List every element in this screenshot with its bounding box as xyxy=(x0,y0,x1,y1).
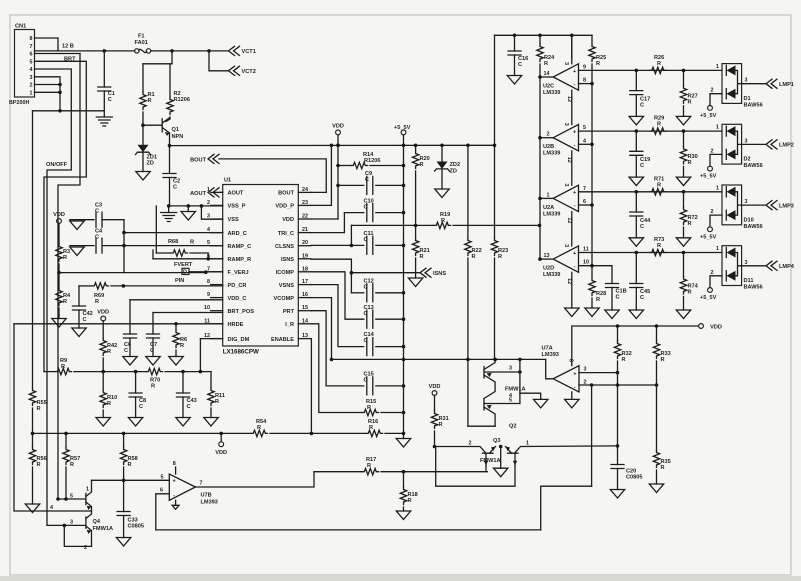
connector xyxy=(208,188,219,197)
svg-text:R: R xyxy=(37,406,41,412)
ground below R28 xyxy=(585,308,599,317)
capacitor C15 xyxy=(364,372,374,395)
svg-text:D2: D2 xyxy=(744,157,751,163)
svg-text:3: 3 xyxy=(509,366,512,372)
wire R14 right xyxy=(370,165,404,167)
ground below C16 xyxy=(507,76,521,85)
wire C9 left xyxy=(338,184,364,186)
wire Q4 collector to U7B pin5 xyxy=(92,479,170,481)
ground earth below C1 xyxy=(96,117,112,126)
svg-text:R: R xyxy=(441,218,445,224)
wire C12 right xyxy=(376,292,404,294)
wire top supply line xyxy=(495,34,593,36)
wire U1 right pin stub xyxy=(298,191,311,193)
svg-text:R: R xyxy=(544,61,548,67)
ground below C17 xyxy=(629,116,643,125)
wire U1 left pin stub xyxy=(211,218,223,220)
wire pin14 to R15 xyxy=(311,324,362,413)
wire pin18 to C13 xyxy=(311,272,364,319)
svg-text:C: C xyxy=(124,348,128,354)
wire long line to U7A xyxy=(332,358,546,360)
wire HRDE down to Q4 mid xyxy=(14,324,92,511)
wire R1-R2 top row xyxy=(143,63,172,65)
transistor Q1 NPN xyxy=(143,118,183,140)
svg-text:3: 3 xyxy=(563,123,569,126)
svg-text:Q4: Q4 xyxy=(93,519,101,525)
wire from VSS row down to R68 xyxy=(155,206,157,253)
wire R55 to R56 xyxy=(32,408,34,447)
wire to R10 xyxy=(102,372,104,390)
svg-text:LM339: LM339 xyxy=(543,272,560,278)
wire C4 left xyxy=(70,245,94,247)
resistor R54 xyxy=(251,419,268,437)
svg-text:D1: D1 xyxy=(744,96,751,102)
junction output rail U2D xyxy=(538,257,542,261)
svg-text:VDD: VDD xyxy=(215,450,227,456)
capacitor C17 xyxy=(630,91,650,109)
svg-text:-: - xyxy=(574,203,576,209)
svg-text:PIN: PIN xyxy=(175,278,184,284)
svg-text:D11: D11 xyxy=(744,278,754,284)
comparator U2C LM339 xyxy=(543,62,579,102)
resistor R9 xyxy=(55,358,72,375)
svg-text:BRT_POS: BRT_POS xyxy=(228,309,255,315)
svg-text:1: 1 xyxy=(716,185,719,191)
svg-text:-: - xyxy=(574,82,576,88)
connector LMP4 xyxy=(766,261,795,270)
junction R19 tap xyxy=(350,244,354,248)
capacitor C9 xyxy=(365,171,373,194)
wire D1 pin2 to 5V xyxy=(710,94,722,106)
svg-text:C: C xyxy=(518,62,522,68)
svg-text:R: R xyxy=(148,98,152,104)
wire PD_CR row to U1 pin8 xyxy=(111,285,223,287)
wire U1 left pin stub xyxy=(211,245,223,247)
resistor R21 xyxy=(412,238,429,260)
wire C12 left xyxy=(351,292,363,294)
svg-text:BOUT: BOUT xyxy=(190,157,206,163)
junction fuse out xyxy=(170,49,211,53)
wire VDD stub xyxy=(220,433,222,441)
wire R2 top lead xyxy=(169,64,171,97)
junction pins 1-2-3 xyxy=(58,83,62,94)
svg-text:VDD_C: VDD_C xyxy=(228,296,247,302)
junction top line xyxy=(513,34,574,38)
wire D11 pin3 out xyxy=(742,265,766,267)
svg-text:12: 12 xyxy=(204,333,210,339)
power terminal VDD xyxy=(699,324,722,331)
resistor R31 xyxy=(431,411,448,429)
wire U1 left pin stub xyxy=(211,271,223,273)
wire U1 left pin stub xyxy=(211,310,223,312)
wire +5V rail down xyxy=(403,135,405,439)
resistor R15 xyxy=(362,399,379,416)
wire U7B pin6 down xyxy=(156,494,170,530)
comparator U2B LM339 xyxy=(543,123,579,163)
wire down to C42 xyxy=(78,286,80,306)
svg-text:VSNS: VSNS xyxy=(279,283,295,289)
power terminal VDD xyxy=(429,384,441,395)
wire R32 top xyxy=(617,326,619,341)
svg-text:DIG_DM: DIG_DM xyxy=(228,337,250,343)
wire U1 right pin stub xyxy=(298,338,311,340)
svg-text:2: 2 xyxy=(711,88,714,94)
wire R4 to ground xyxy=(58,308,60,319)
svg-text:RAMP_C: RAMP_C xyxy=(228,244,252,250)
capacitor C2 xyxy=(163,174,180,191)
wire pin24 to corner xyxy=(311,191,326,193)
wire left column down to R55 xyxy=(32,111,34,388)
junction pin2 xyxy=(590,383,659,387)
resistor R17 xyxy=(362,457,379,475)
svg-text:R: R xyxy=(70,462,74,468)
wire Q3 right emitter loop xyxy=(436,447,515,487)
svg-text:ENABLE: ENABLE xyxy=(271,337,294,343)
svg-text:3: 3 xyxy=(30,75,33,81)
transistor Q2 FMW1A (dual) xyxy=(484,359,526,429)
svg-text:8: 8 xyxy=(30,36,33,42)
svg-text:R: R xyxy=(61,364,65,370)
wire BRT net down to Q4 base xyxy=(58,54,80,500)
resistor R29 xyxy=(650,116,667,135)
wire R35 bottom xyxy=(656,470,658,484)
ground below R74 xyxy=(676,310,690,319)
svg-text:Q1: Q1 xyxy=(172,127,179,133)
wire R20 to R21 xyxy=(415,171,417,238)
svg-text:2: 2 xyxy=(711,148,714,154)
wire R3 to R4 xyxy=(58,264,60,288)
svg-text:-: - xyxy=(574,264,576,270)
wire Q2 emitter loop xyxy=(468,425,495,427)
svg-text:1: 1 xyxy=(716,125,719,131)
svg-text:ZD: ZD xyxy=(450,169,457,175)
wire C8 to ground xyxy=(135,397,137,418)
wire to VCT2 xyxy=(209,51,229,71)
svg-text:1: 1 xyxy=(86,487,89,493)
svg-text:ICOMP: ICOMP xyxy=(276,270,295,276)
wire R6 to ground xyxy=(175,350,177,357)
svg-text:R: R xyxy=(63,255,67,261)
op-amp U7B LM393 xyxy=(160,461,218,509)
wire R17 row right xyxy=(381,471,487,473)
wire VDD to R3 xyxy=(58,223,60,244)
wire Q4 emitter loop xyxy=(64,525,91,546)
svg-text:R1206: R1206 xyxy=(174,97,190,103)
junction 5V rail xyxy=(402,164,406,436)
wire U2A minus input xyxy=(579,204,593,206)
wire C18 to ground xyxy=(611,288,613,311)
wire R30 bottom xyxy=(683,166,685,177)
capacitor C19 xyxy=(630,151,650,169)
wire U2D output xyxy=(540,258,553,260)
svg-text:5: 5 xyxy=(161,474,164,480)
svg-text:R: R xyxy=(498,254,502,260)
wire U1 right pin stub xyxy=(298,204,311,206)
wire R58 bottom to C33 xyxy=(123,467,125,512)
wire to earth ground xyxy=(168,206,170,213)
power terminal VDD xyxy=(53,212,65,223)
svg-text:C: C xyxy=(83,317,87,323)
wire C6 to ground xyxy=(129,338,131,357)
wire R32 bottom xyxy=(617,361,619,373)
junction R69 right xyxy=(122,284,126,288)
svg-text:VCT2: VCT2 xyxy=(242,69,256,75)
svg-text:3: 3 xyxy=(563,244,569,247)
wire U1 left pin stub xyxy=(211,191,223,193)
resistor R69 xyxy=(92,283,109,305)
wire R32-C20 column xyxy=(617,373,619,465)
wire U1 left pin stub xyxy=(211,204,223,206)
wire R69 left xyxy=(79,285,92,287)
ground below R4 xyxy=(52,319,66,328)
svg-text:R: R xyxy=(596,61,600,67)
svg-text:VCOMP: VCOMP xyxy=(273,296,294,302)
wire ARD_C row to U1 pin4 xyxy=(124,232,223,234)
wire VDD_C row to U1 pin9 xyxy=(130,299,223,301)
svg-text:U7B: U7B xyxy=(201,493,212,499)
svg-text:BP200H: BP200H xyxy=(9,100,29,106)
svg-text:AOUT: AOUT xyxy=(228,191,244,197)
wire C4 right xyxy=(102,245,124,247)
svg-text:LM339: LM339 xyxy=(543,211,560,217)
svg-text:5: 5 xyxy=(207,240,210,246)
ground below R6 xyxy=(169,357,183,366)
svg-text:12: 12 xyxy=(566,96,572,102)
wire row to C1 bottom xyxy=(33,110,105,112)
capacitor C6 xyxy=(124,334,137,354)
svg-text:12: 12 xyxy=(566,278,572,284)
svg-text:C: C xyxy=(108,97,112,103)
junction R54 row left xyxy=(31,432,35,436)
junction VDD row xyxy=(616,324,659,328)
wire VSS net row xyxy=(170,206,223,219)
ground earth VSS xyxy=(161,213,177,222)
svg-text:1: 1 xyxy=(526,441,529,447)
ground below LM339 pin12 xyxy=(565,308,579,317)
svg-text:C: C xyxy=(365,177,369,183)
svg-text:9: 9 xyxy=(207,292,210,298)
wire U2B minus input xyxy=(579,143,593,145)
svg-text:LM393: LM393 xyxy=(201,500,218,506)
wire VDD to R31 xyxy=(434,395,436,411)
svg-text:R: R xyxy=(190,240,194,246)
svg-text:VDD: VDD xyxy=(332,123,344,129)
wire C10 left xyxy=(344,212,363,214)
svg-text:R: R xyxy=(37,462,41,468)
resistor R4 xyxy=(56,288,71,306)
junction output rail U2B xyxy=(538,136,542,140)
svg-text:+5_5V: +5_5V xyxy=(700,295,717,301)
wire pin23 VDD_P to bus xyxy=(311,145,331,205)
wire C3 left xyxy=(70,219,94,221)
svg-text:3: 3 xyxy=(563,62,569,65)
svg-text:FMW1A: FMW1A xyxy=(93,526,114,532)
wire D10 pin3 out xyxy=(742,204,766,206)
ground below R30 xyxy=(676,177,690,186)
svg-text:R: R xyxy=(420,162,424,168)
ground left of C3 xyxy=(70,221,84,230)
capacitor C45 xyxy=(630,284,650,302)
svg-text:FMW1A: FMW1A xyxy=(480,458,501,464)
capacitor C1 xyxy=(98,87,115,103)
wire U1 right pin stub xyxy=(298,245,311,247)
svg-text:C: C xyxy=(187,404,191,410)
wire U7A output jog xyxy=(546,359,554,378)
wire C42 to ground xyxy=(78,310,80,328)
wire R1 top lead xyxy=(142,64,144,92)
wire R18 to ground xyxy=(403,507,405,511)
wire to R11 xyxy=(210,372,212,388)
wire R9 left xyxy=(44,371,55,373)
svg-text:HRDE: HRDE xyxy=(228,322,244,328)
wire C1 bottom lead xyxy=(103,91,105,117)
wire U2A output xyxy=(540,197,553,199)
svg-text:R: R xyxy=(107,349,111,355)
svg-text:LX1686CPW: LX1686CPW xyxy=(223,348,259,355)
svg-text:8: 8 xyxy=(173,461,176,467)
wire U1 left pin stub xyxy=(211,284,223,286)
wire U1 pin2 stub joint xyxy=(201,205,222,207)
svg-text:5: 5 xyxy=(509,398,512,404)
ground Q2 base xyxy=(534,399,548,408)
svg-text:BAW56: BAW56 xyxy=(744,224,763,230)
svg-text:CN1: CN1 xyxy=(15,24,26,30)
svg-text:C: C xyxy=(616,295,620,301)
svg-text:R: R xyxy=(180,343,184,349)
svg-text:BOUT: BOUT xyxy=(278,191,294,197)
ground below C20 xyxy=(610,490,624,499)
svg-text:VDD: VDD xyxy=(97,310,109,316)
svg-text:U1: U1 xyxy=(224,178,231,184)
svg-text:R68: R68 xyxy=(168,239,178,245)
svg-text:C0805: C0805 xyxy=(626,475,642,481)
junction R6 top xyxy=(174,322,178,326)
wire after fuse xyxy=(151,50,229,52)
capacitor C8 xyxy=(129,393,146,410)
junction R19 ends xyxy=(414,224,541,228)
wire R6 top xyxy=(175,324,177,330)
resistor R35 xyxy=(653,450,670,471)
wire R22 top xyxy=(467,145,469,238)
junction row371 xyxy=(101,370,137,374)
svg-text:R: R xyxy=(622,357,626,363)
svg-text:5: 5 xyxy=(30,59,33,65)
svg-text:3: 3 xyxy=(70,520,73,526)
wire R57 top xyxy=(65,433,67,447)
wire R19 row left xyxy=(351,224,434,226)
wire HRDE row long xyxy=(14,323,223,325)
svg-text:Q2: Q2 xyxy=(509,424,516,430)
wire R10 to ground xyxy=(102,410,104,418)
svg-text:12: 12 xyxy=(566,217,572,223)
svg-text:R: R xyxy=(408,498,412,504)
wire FVERT to U1 pin7 xyxy=(189,271,223,273)
wire pin15 to C15 xyxy=(311,311,364,386)
svg-text:ISNS: ISNS xyxy=(281,257,294,263)
resistor R1 xyxy=(140,92,155,110)
resistor R70 xyxy=(146,368,163,389)
junction long line left xyxy=(330,358,334,362)
junction C17 R27 taps xyxy=(635,69,686,73)
wire pin12 down to R9 row xyxy=(199,339,201,372)
svg-text:3: 3 xyxy=(745,78,748,84)
wire R72 bottom xyxy=(683,227,685,238)
svg-text:3: 3 xyxy=(563,183,569,186)
power terminal +5_5V ch2 xyxy=(700,166,717,179)
wire U2C plus input row xyxy=(579,69,723,71)
svg-text:I_R: I_R xyxy=(285,322,294,328)
wire RAMP_R stub up xyxy=(152,250,154,259)
op-amp U7A LM393 xyxy=(542,346,587,400)
svg-text:10: 10 xyxy=(583,260,589,266)
svg-text:LMP4: LMP4 xyxy=(779,264,795,270)
wire R24 top xyxy=(539,35,541,44)
wire U2C minus input xyxy=(579,83,593,85)
wire C10 right xyxy=(376,212,404,214)
svg-text:+5_5V: +5_5V xyxy=(394,125,411,131)
svg-text:3: 3 xyxy=(745,138,748,144)
svg-text:C: C xyxy=(640,295,644,301)
ground below C7 xyxy=(146,357,160,366)
svg-text:12: 12 xyxy=(566,157,572,163)
wire C17 bottom xyxy=(635,95,637,117)
junction FVERT pin7 xyxy=(204,270,208,274)
comparator U2A LM339 xyxy=(543,183,579,223)
wire to R18 xyxy=(403,472,405,487)
capacitor C3 xyxy=(95,203,102,228)
wire down to R divider xyxy=(171,51,173,64)
ground below ZD1 xyxy=(136,172,150,181)
svg-text:9: 9 xyxy=(583,64,586,70)
svg-text:LMP2: LMP2 xyxy=(779,143,794,149)
wire D11 pin2 to 5V xyxy=(710,276,722,288)
junction Q2 collector xyxy=(493,358,521,374)
wire Q1 emitter down xyxy=(169,133,171,173)
wire C17 top xyxy=(635,70,637,90)
ground below ZD2 xyxy=(435,189,449,198)
junction row371b xyxy=(181,370,202,374)
wire AOUT to U1 pin1 xyxy=(219,191,223,193)
junction VDD rail xyxy=(336,144,340,188)
ground below R27 xyxy=(676,116,690,125)
junction main/C1 xyxy=(103,49,107,53)
wire R28 to ground xyxy=(591,298,593,308)
wire U1 left pin stub xyxy=(211,232,223,234)
wire CN1 pin6 BRT xyxy=(35,53,81,55)
junction pin3 R32 xyxy=(616,371,620,375)
svg-text:3: 3 xyxy=(745,260,748,266)
junction C44 R72 taps xyxy=(635,190,686,194)
wire R9 to R70 xyxy=(74,371,146,373)
svg-text:2: 2 xyxy=(711,270,714,276)
svg-text:R: R xyxy=(688,99,692,105)
ground below C43 xyxy=(176,418,190,427)
test point FVERT xyxy=(174,262,193,276)
wire U1 right pin stub xyxy=(298,232,311,234)
svg-text:R: R xyxy=(367,463,371,469)
wire R33 bottom xyxy=(656,361,658,385)
wire R11 to ground xyxy=(210,408,212,418)
svg-text:VDD: VDD xyxy=(429,384,441,390)
wire U1 right pin stub xyxy=(298,323,311,325)
svg-text:-: - xyxy=(173,493,175,499)
svg-text:C: C xyxy=(364,378,368,384)
svg-text:R: R xyxy=(657,122,661,128)
resistor R14 xyxy=(351,152,380,169)
svg-text:C: C xyxy=(364,285,368,291)
resistor R74 xyxy=(680,277,698,296)
power terminal +5_5V ch4 xyxy=(700,288,717,302)
